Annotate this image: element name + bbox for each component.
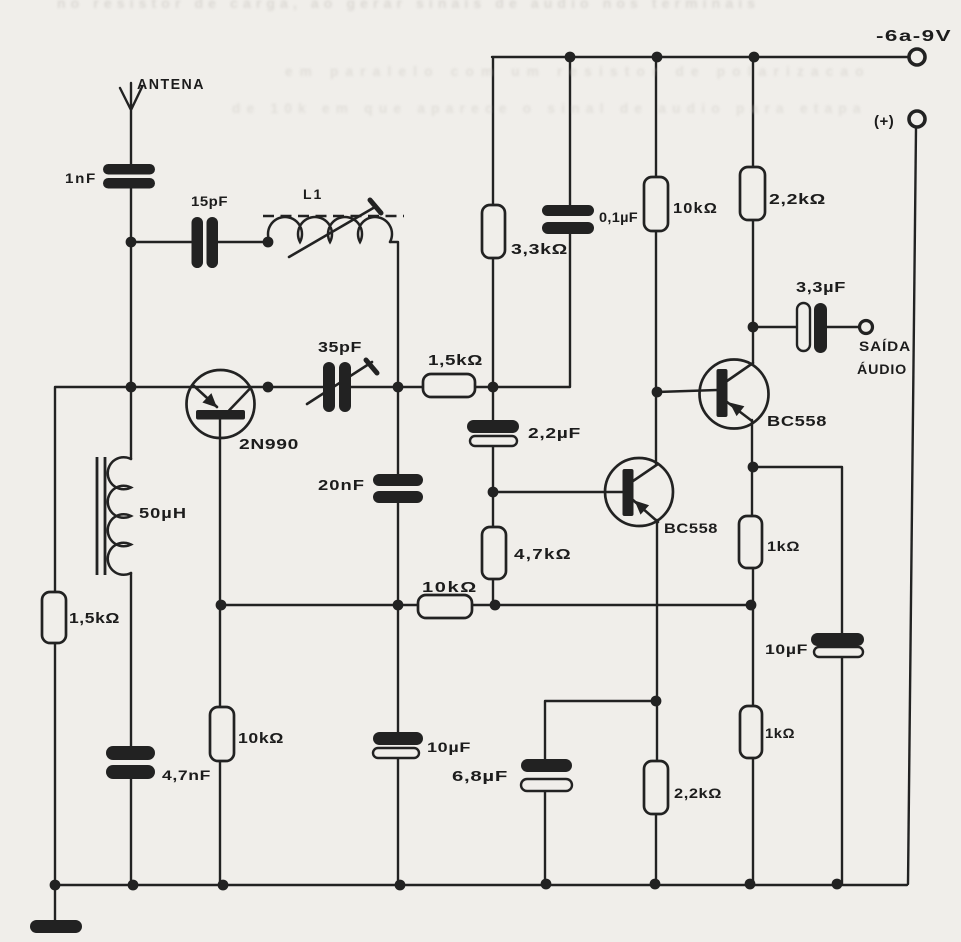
svg-text:2,2kΩ: 2,2kΩ (769, 192, 826, 208)
svg-text:35pF: 35pF (318, 340, 362, 356)
svg-text:-6a-9V: -6a-9V (876, 28, 952, 45)
svg-text:4,7kΩ: 4,7kΩ (514, 547, 572, 563)
svg-text:de 10k em que aparece o sinal: de 10k em que aparece o sinal de audio p… (232, 101, 862, 116)
svg-text:6,8µF: 6,8µF (452, 769, 508, 785)
svg-text:1nF: 1nF (65, 171, 97, 186)
svg-text:3,3µF: 3,3µF (796, 280, 846, 296)
svg-text:(+): (+) (874, 113, 894, 130)
svg-text:10kΩ: 10kΩ (238, 731, 284, 747)
svg-text:1kΩ: 1kΩ (767, 538, 800, 554)
svg-text:ÁUDIO: ÁUDIO (857, 361, 907, 377)
svg-text:1,5kΩ: 1,5kΩ (69, 611, 120, 627)
svg-text:L1: L1 (303, 186, 323, 202)
svg-text:no resistor de carga, ao gerar: no resistor de carga, ao gerar sinais de… (57, 0, 757, 11)
svg-text:ANTENA: ANTENA (137, 77, 205, 93)
svg-text:10µF: 10µF (427, 739, 471, 755)
svg-text:2,2kΩ: 2,2kΩ (674, 785, 722, 801)
svg-text:1kΩ: 1kΩ (765, 725, 795, 741)
svg-text:em paralelo com um resistor de: em paralelo com um resistor de polarizac… (285, 64, 865, 79)
svg-text:15pF: 15pF (191, 193, 228, 209)
svg-text:4,7nF: 4,7nF (162, 767, 211, 783)
svg-text:BC558: BC558 (664, 520, 718, 536)
svg-text:SAÍDA: SAÍDA (859, 338, 911, 354)
svg-text:10kΩ: 10kΩ (673, 201, 718, 217)
svg-text:50µH: 50µH (139, 506, 187, 522)
svg-text:10µF: 10µF (765, 641, 808, 657)
svg-text:BC558: BC558 (767, 414, 827, 430)
svg-text:0,1µF: 0,1µF (599, 210, 638, 225)
svg-text:10kΩ: 10kΩ (422, 580, 478, 596)
svg-text:2N990: 2N990 (239, 437, 299, 453)
svg-text:20nF: 20nF (318, 478, 365, 494)
svg-text:3,3kΩ: 3,3kΩ (511, 242, 568, 258)
svg-text:1,5kΩ: 1,5kΩ (428, 353, 483, 369)
svg-text:2,2µF: 2,2µF (528, 426, 581, 442)
